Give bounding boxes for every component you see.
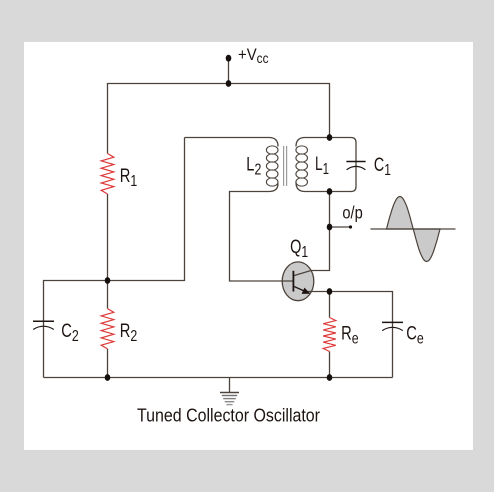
svg-text:Tuned Collector Oscillator: Tuned Collector Oscillator [137,406,320,426]
svg-text:o/p: o/p [342,203,362,223]
